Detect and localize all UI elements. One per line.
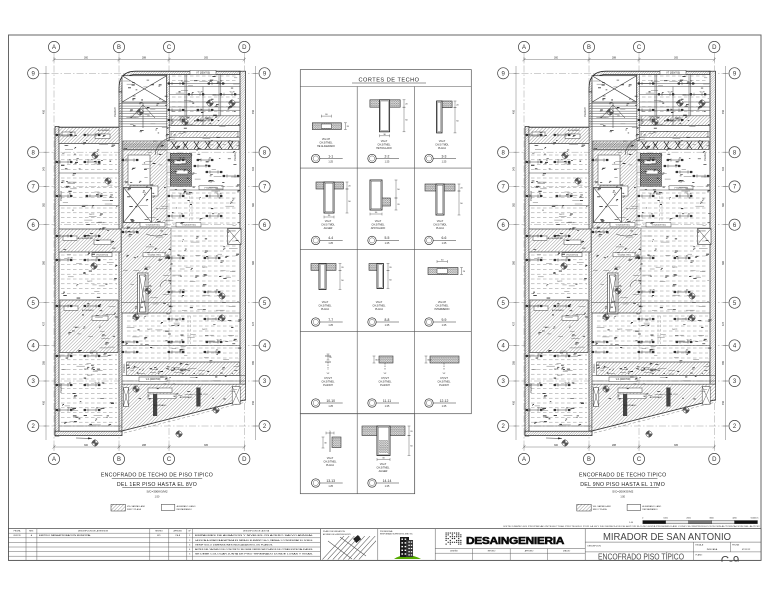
right legend <box>577 504 591 511</box>
svg-text:ENCOFRADO DE TECHO DE PISO TIP: ENCOFRADO DE TECHO DE PISO TIPICO <box>101 473 213 479</box>
svg-text:5-5: 5-5 <box>385 236 390 240</box>
title block outline <box>9 529 762 561</box>
svg-text:PLACA: PLACA <box>326 464 334 467</box>
svg-text:APROBO: APROBO <box>525 550 534 553</box>
svg-text:1:25: 1:25 <box>385 160 390 163</box>
section 7-7 <box>311 264 319 271</box>
svg-text:1:25: 1:25 <box>385 405 390 408</box>
svg-text:FECHA: FECHA <box>14 530 21 533</box>
svg-text:ENCOFRADO DE TECHO TIPICO: ENCOFRADO DE TECHO TIPICO <box>579 473 666 479</box>
svg-text:ALIGERADO LLANO: ALIGERADO LLANO <box>642 505 661 508</box>
svg-text:1-1: 1-1 <box>328 154 333 158</box>
left legend <box>111 504 125 511</box>
svg-text:APOYALADO: APOYALADO <box>371 227 386 230</box>
svg-text:S/C=200KG/M2: S/C=200KG/M2 <box>612 490 633 494</box>
svg-text:HE ALIGERADO: HE ALIGERADO <box>317 145 335 148</box>
project title panel <box>585 541 761 543</box>
svg-text:1:25: 1:25 <box>442 405 447 408</box>
plano de ubicacion <box>319 529 321 561</box>
svg-text:07/11/12: 07/11/12 <box>742 549 751 551</box>
svg-text:ENCOFRADO PISO TÍPICO: ENCOFRADO PISO TÍPICO <box>598 553 684 562</box>
svg-text:1:25: 1:25 <box>385 324 390 327</box>
svg-text:RESTAURANDO: RESTAURANDO <box>177 508 193 511</box>
svg-text:APROBO: APROBO <box>174 530 183 533</box>
svg-text:PLACA: PLACA <box>321 308 329 311</box>
svg-text:REVISO: REVISO <box>155 531 163 533</box>
svg-text:2-2: 2-2 <box>385 154 390 158</box>
svg-text:1:25: 1:25 <box>385 242 390 245</box>
svg-text:RESPONSABLE SUPERIOR EL 3ERO V: RESPONSABLE SUPERIOR EL 3ERO VIC <box>380 533 413 536</box>
svg-text:FECHA:: FECHA: <box>732 544 739 547</box>
left floor plan <box>28 41 271 464</box>
building tower logo <box>394 555 421 559</box>
svg-text:1:25: 1:25 <box>328 324 333 327</box>
section 10-10 <box>327 354 329 360</box>
svg-text:EMITIDO PARA APROBACIÓN MUNICI: EMITIDO PARA APROBACIÓN MUNICIPAL <box>39 534 92 537</box>
svg-text:ESTE DISEÑO ES PROPIEDAD INTEL: ESTE DISEÑO ES PROPIEDAD INTELECTUAL PRO… <box>504 525 761 528</box>
svg-text:1:25: 1:25 <box>328 242 333 245</box>
svg-text:ALIGER: ALIGER <box>379 470 388 473</box>
svg-text:05/31/70: 05/31/70 <box>13 535 20 537</box>
svg-text:1:25: 1:25 <box>442 160 447 163</box>
svg-text:5000mm: 5000mm <box>751 518 759 520</box>
revision/notes table <box>9 529 321 561</box>
svg-text:SINO Y PLACA: SINO Y PLACA <box>127 508 141 511</box>
cortes de techo panel <box>300 70 471 414</box>
svg-text:9-9: 9-9 <box>442 318 447 322</box>
svg-text:DEL 1ER PISO HASTA EL 8VO: DEL 1ER PISO HASTA EL 8VO <box>117 482 197 488</box>
svg-text:PLACA: PLACA <box>375 308 383 311</box>
svg-text:1:25: 1:25 <box>442 324 447 327</box>
svg-text:DESAINGENIERIA: DESAINGENIERIA <box>466 535 565 547</box>
svg-text:PLACA: PLACA <box>436 227 444 230</box>
section 2-2 <box>370 100 382 107</box>
svg-text:ALIGER: ALIGER <box>324 227 333 230</box>
section 12-12 <box>430 356 459 363</box>
svg-text:EPL: EPL <box>157 535 161 537</box>
section 1-1 <box>312 123 341 130</box>
svg-text:VIG. SANTA LLANO: VIG. SANTA LLANO <box>593 505 612 508</box>
svg-text:PROFESIONAL: PROFESIONAL <box>380 530 393 533</box>
svg-text:INDICADA: INDICADA <box>707 548 718 551</box>
svg-text:ESCALA:: ESCALA: <box>696 544 704 547</box>
svg-text:VIG. SANTA LLANO: VIG. SANTA LLANO <box>127 505 146 508</box>
desa dotted logo <box>446 533 462 545</box>
profesional panel with building logo <box>434 529 436 561</box>
svg-text:P.A.B: P.A.B <box>176 534 181 537</box>
section 5-5 <box>370 180 382 210</box>
svg-text:PLANCH: PLANCH <box>323 384 333 387</box>
section 13-13 <box>329 432 331 452</box>
svg-text:1:50: 1:50 <box>155 496 160 499</box>
svg-text:13-13: 13-13 <box>326 479 335 483</box>
svg-text:SINO Y PLACA: SINO Y PLACA <box>593 508 607 511</box>
svg-text:INTERMEDIO: INTERMEDIO <box>434 308 449 311</box>
section 3-3 <box>441 101 452 108</box>
desaingenieria panel <box>584 529 586 561</box>
svg-text:DISEÑO: DISEÑO <box>450 550 458 553</box>
svg-text:PLANCH: PLANCH <box>380 384 390 387</box>
svg-text:PLANO DE UBICACION: PLANO DE UBICACION <box>323 530 345 533</box>
svg-text:REV.: REV. <box>29 531 34 533</box>
svg-text:DIBUJO: DIBUJO <box>563 551 571 553</box>
section 6-6 <box>425 184 436 191</box>
svg-text:4-4: 4-4 <box>328 236 333 240</box>
section 4-4 <box>316 182 324 189</box>
svg-text:AV PASEO DE LA REPUBLICA 2679: AV PASEO DE LA REPUBLICA 2679 <box>323 533 351 536</box>
right floor plan <box>498 41 741 464</box>
svg-text:DEL 9NO PISO HASTA EL 17MO: DEL 9NO PISO HASTA EL 17MO <box>580 482 665 488</box>
svg-text:DESCRIPCION DE LA NOTA: DESCRIPCION DE LA NOTA <box>243 530 270 533</box>
svg-text:REVISO: REVISO <box>488 551 496 553</box>
svg-text:1:25: 1:25 <box>328 160 333 163</box>
section 11-11 <box>379 356 393 363</box>
svg-text:DESCRIPCION DE LA REVISION: DESCRIPCION DE LA REVISION <box>78 530 109 533</box>
graphic scale bar <box>643 521 666 524</box>
svg-text:EMPALMES DE ALBACION Y NIVELES: EMPALMES DE ALBACION Y NIVELES CN ACERO … <box>195 534 315 537</box>
svg-text:PLANO:: PLANO: <box>696 553 703 556</box>
svg-text:1:25: 1:25 <box>328 405 333 408</box>
svg-text:CORTES DE TECHO: CORTES DE TECHO <box>358 77 419 83</box>
svg-text:Nº: Nº <box>189 530 191 533</box>
svg-text:RESTAURANDO: RESTAURANDO <box>642 508 658 511</box>
svg-text:7-7: 7-7 <box>328 318 333 322</box>
section 9-9 <box>428 268 458 275</box>
svg-text:1:50: 1:50 <box>620 496 625 499</box>
svg-text:10-10: 10-10 <box>326 399 335 403</box>
svg-text:14-14: 14-14 <box>383 479 392 483</box>
svg-text:MIRADOR DE SAN ANTONIO: MIRADOR DE SAN ANTONIO <box>603 532 731 543</box>
svg-text:ALIGERADO LLANO: ALIGERADO LLANO <box>177 505 196 508</box>
svg-text:SE DEBE COLOCAR JUNTA DE PISO: SE DEBE COLOCAR JUNTA DE PISO TERMINADO … <box>195 553 314 556</box>
section 8-8 <box>369 264 377 271</box>
svg-text:1:25: 1:25 <box>328 485 333 488</box>
svg-text:3-3: 3-3 <box>442 154 447 158</box>
svg-text:8-8: 8-8 <box>385 318 390 322</box>
svg-text:ANTES DEL VACIADO DE CONCRETO: ANTES DEL VACIADO DE CONCRETO SE DEBE VE… <box>195 548 314 551</box>
svg-text:LA ESCALA GRAFICA ADAPTADA ES: LA ESCALA GRAFICA ADAPTADA ES PARA EL EL… <box>195 539 314 542</box>
svg-text:HETICULADO: HETICULADO <box>376 147 392 150</box>
svg-text:VERIF SOLO DIMENSIONES INDICAD: VERIF SOLO DIMENSIONES INDICADAS EN LOS … <box>195 543 274 546</box>
svg-text:1:25: 1:25 <box>442 242 447 245</box>
svg-text:6-6: 6-6 <box>442 236 447 240</box>
svg-text:11-11: 11-11 <box>383 399 391 403</box>
svg-text:S/C=300KG/M2: S/C=300KG/M2 <box>146 490 167 494</box>
svg-text:PLANCH: PLANCH <box>439 384 449 387</box>
svg-text:1:25: 1:25 <box>385 485 390 488</box>
svg-text:12-12: 12-12 <box>440 399 449 403</box>
section 14-14 <box>362 426 377 436</box>
svg-text:DESCRIPCION:: DESCRIPCION: <box>588 545 602 547</box>
svg-text:PLACA: PLACA <box>438 147 446 150</box>
